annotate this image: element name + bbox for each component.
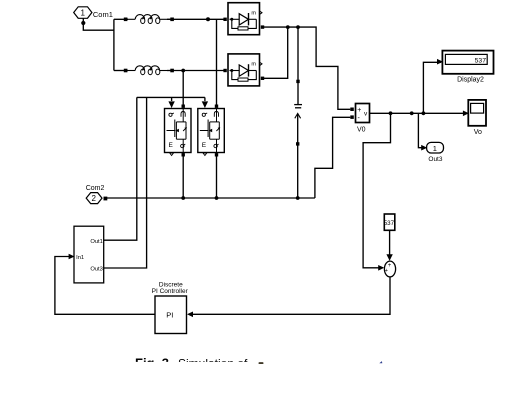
svg-text:+: + bbox=[388, 263, 392, 269]
svg-text:Vo: Vo bbox=[474, 129, 482, 136]
svg-text:V0: V0 bbox=[357, 126, 366, 133]
svg-text:1: 1 bbox=[81, 9, 86, 18]
svg-text:In1: In1 bbox=[76, 255, 84, 261]
svg-text:+: + bbox=[357, 107, 361, 114]
svg-text:Display2: Display2 bbox=[457, 77, 484, 84]
svg-text:1: 1 bbox=[433, 144, 437, 153]
svg-text:537: 537 bbox=[384, 220, 395, 227]
svg-text:Out1: Out1 bbox=[90, 239, 103, 245]
svg-text:537: 537 bbox=[475, 58, 487, 65]
svg-text:+: + bbox=[385, 268, 388, 274]
svg-text:PI: PI bbox=[166, 311, 173, 320]
svg-text:Out3: Out3 bbox=[90, 266, 103, 272]
svg-text:2: 2 bbox=[92, 194, 97, 203]
svg-text:Com2: Com2 bbox=[86, 185, 105, 192]
svg-text:Com1: Com1 bbox=[93, 10, 113, 19]
svg-text:PI Controller: PI Controller bbox=[152, 288, 189, 295]
svg-text:Out3: Out3 bbox=[428, 156, 442, 163]
